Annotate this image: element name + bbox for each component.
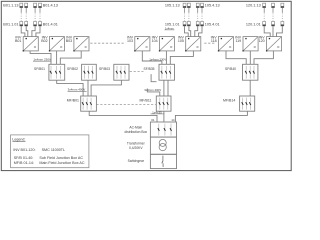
legend line SF/B: [14, 156, 84, 160]
svg-text:105.1.13: 105.1.13: [165, 3, 180, 7]
PV string 105.1 modules: [183, 3, 186, 26]
junction box SF/B40: [243, 64, 258, 80]
svg-text:MF/B01: MF/B01: [67, 99, 79, 103]
wire string B01.1 to inverter: [21, 26, 25, 37]
label MF/B14: [223, 99, 235, 103]
wire SF/B03 to MF/B01: [91, 80, 121, 96]
svg-text:119: 119: [235, 39, 241, 43]
inverter INV B02: [49, 37, 65, 52]
svg-text:Switchgear: Switchgear: [128, 159, 145, 163]
svg-text:1x4mm 230V: 1x4mm 230V: [149, 57, 166, 61]
svg-text:SF/B03: SF/B03: [99, 67, 110, 71]
junction box SF/B35: [159, 64, 175, 80]
label SF/B02: [67, 67, 78, 71]
svg-text:distribution Box: distribution Box: [125, 130, 148, 134]
junction box SF/B02: [82, 64, 97, 80]
svg-text:118: 118: [211, 39, 217, 43]
label MF/B01: [67, 99, 79, 103]
transformer compartment: [150, 137, 176, 154]
wire string 105.3 to inverter: [195, 26, 198, 37]
inverter INV 105: [185, 37, 201, 52]
PV string label 120.1.13: [246, 3, 261, 7]
wire INV 119 to SF/B40: [249, 51, 251, 64]
wire SF/B35 to MF/B11 b: [167, 80, 169, 96]
dashed continuation MF row: [96, 103, 156, 105]
wire string B01.3 to inverter: [32, 26, 35, 37]
wire SF/B01 to MF/B01: [57, 80, 83, 96]
label INV 119: [235, 35, 242, 42]
svg-text:B02: B02: [41, 39, 47, 43]
wire string 105.1 to inverter: [185, 26, 189, 37]
wire INV 105 to SF/B35: [170, 51, 193, 64]
svg-text:0,4/20KV: 0,4/20KV: [129, 146, 143, 150]
PV string 120.2 modules: [272, 3, 275, 26]
legend line MF/B: [14, 161, 85, 165]
cable label 1x4mm DC: [165, 26, 175, 30]
svg-text:105.4.13: 105.4.13: [205, 3, 220, 7]
wire SF/B40 to MF/B14: [249, 80, 251, 96]
svg-text:105: 105: [178, 39, 184, 43]
node label 14: [171, 118, 175, 122]
svg-text:MF/B14: MF/B14: [223, 99, 235, 103]
wire SF/B35 to MF/B11 a: [163, 80, 165, 96]
svg-text:3x4mm 400V: 3x4mm 400V: [68, 87, 86, 91]
label INV B02: [41, 35, 48, 42]
wire INV B03 to SF/B01: [60, 51, 81, 64]
PV string 120.3 modules: [281, 3, 284, 26]
svg-text:120.1.01: 120.1.01: [246, 22, 261, 26]
inverter INV 118: [218, 37, 234, 52]
cable label 3x4mm 400V left: [68, 87, 87, 91]
svg-text:Transformer: Transformer: [127, 141, 146, 145]
wire hidden SF to MF/B11 upper: [151, 74, 156, 82]
svg-text:1x4mm 230V: 1x4mm 230V: [33, 57, 51, 61]
wire INV 118 to SF/B40: [226, 51, 246, 64]
label INV 105: [178, 35, 185, 42]
inverter INV 119: [242, 37, 258, 52]
wire string B01.2 to inverter: [26, 26, 28, 37]
svg-text:SF/B01: SF/B01: [34, 67, 45, 71]
label INV 103: [127, 35, 134, 42]
junction box SF/B01: [49, 64, 65, 80]
junction box MF/B01: [81, 96, 97, 111]
PV string B01.3 modules: [34, 3, 37, 26]
legend line INV: [13, 148, 65, 152]
border frame: [1, 1, 291, 170]
wire hidden SF to MF/B11 lower: [147, 89, 160, 97]
PV string 105.3 modules: [196, 3, 199, 26]
svg-text:SMC 11000TL: SMC 11000TL: [42, 148, 66, 152]
svg-text:120: 120: [259, 39, 265, 43]
junction box SF/B03: [114, 64, 129, 80]
inverter INV B01: [23, 37, 39, 52]
wire MF/B11 to AC box: [163, 111, 165, 122]
wire INV B02 to SF/B01: [56, 51, 58, 64]
transformer T1 symbol: [159, 139, 166, 150]
PV string label B01.1.01: [3, 22, 18, 26]
wire string 105.4 to inverter: [199, 26, 202, 37]
svg-text:INV B01-120:: INV B01-120:: [13, 148, 35, 152]
svg-text:Legend:: Legend:: [12, 138, 25, 142]
label INV 118: [211, 35, 218, 42]
PV string B01.4 modules: [39, 3, 42, 26]
PV string 105.2 modules: [187, 3, 190, 26]
wire MF/B01 to AC box input 01: [89, 111, 157, 122]
PV string label B01.4.13: [43, 3, 58, 7]
inverter INV B03: [73, 37, 89, 52]
label INV 120: [259, 35, 266, 42]
svg-text:B01.1.13: B01.1.13: [3, 3, 18, 7]
label SF/B35: [144, 67, 155, 71]
PV string label 120.1.01: [246, 22, 261, 26]
junction box MF/B14: [240, 96, 255, 111]
svg-text:B01.4.01: B01.4.01: [43, 22, 58, 26]
cable label 1x4mm 230V center: [149, 57, 166, 61]
wire INV B01 to SF/B01: [30, 51, 51, 64]
wire string 120.3 to inverter: [277, 26, 283, 37]
svg-text:SF/B 01-40:: SF/B 01-40:: [14, 156, 34, 160]
svg-text:103: 103: [127, 39, 133, 43]
PV string label 105.4.01: [205, 22, 220, 26]
wire INV 104 to SF/B35: [165, 51, 167, 64]
switchgear compartment: [150, 154, 176, 168]
cable label 1x4x35: [151, 110, 165, 114]
svg-text:Main Field Junction Box AC: Main Field Junction Box AC: [39, 161, 84, 165]
PV string label 105.4.13: [205, 3, 220, 7]
PV string B01.2 modules: [25, 3, 28, 26]
junction box MF/B11: [156, 96, 171, 111]
svg-text:SF/B02: SF/B02: [67, 67, 78, 71]
svg-text:AC-Main: AC-Main: [129, 126, 142, 130]
wire MF/B14 to AC box input 14: [175, 111, 247, 122]
PV string label B01.1.13: [3, 3, 18, 7]
dashed continuation SF row: [130, 71, 144, 73]
label SF/B40: [225, 67, 236, 71]
label AC-Main distribution Box: [125, 126, 148, 135]
label INV B01: [15, 35, 22, 42]
svg-text:SF/B40: SF/B40: [225, 67, 236, 71]
svg-text:B01: B01: [15, 39, 21, 43]
svg-text:MF/B 01-14:: MF/B 01-14:: [14, 161, 34, 165]
inverter INV 120: [266, 37, 282, 52]
PV string label B01.4.01: [43, 22, 58, 26]
legend box: [11, 135, 89, 168]
wire string 105.2 to inverter: [189, 26, 191, 37]
wire string 120.2 to inverter: [272, 26, 274, 37]
cable label 3x4mm 400V center: [144, 88, 161, 92]
svg-text:Sub Field Junction Box AC: Sub Field Junction Box AC: [39, 156, 83, 160]
dashed continuation inverter row right: [204, 42, 216, 44]
wire string 120.1 to inverter: [264, 26, 270, 37]
label SF/B01: [34, 67, 45, 71]
label Transformer 0,4/20KV: [127, 141, 146, 150]
PV string label 105.1.13: [165, 3, 180, 7]
label MF/B11: [140, 99, 152, 103]
label Switchgear: [128, 159, 145, 163]
dashed continuation inverter row left: [90, 42, 125, 44]
label INV B03: [66, 35, 73, 42]
svg-text:B01.4.13: B01.4.13: [43, 3, 58, 7]
PV string B01.1 modules: [20, 3, 23, 26]
node label 01: [151, 118, 155, 122]
wire INV 120 to SF/B40: [254, 51, 273, 64]
svg-text:3x4mm 400V: 3x4mm 400V: [144, 88, 161, 92]
AC-Main distribution box: [150, 122, 176, 137]
inverter INV 103: [134, 37, 150, 52]
cable label 1x4mm 230V left: [33, 57, 51, 61]
wire string B01.4 to inverter: [36, 26, 40, 37]
PV string label 105.1.01: [165, 22, 180, 26]
PV string 105.4 modules: [201, 3, 204, 26]
PV string 120.1 modules: [263, 3, 266, 26]
wire SF/B02 to MF/B01: [87, 80, 89, 96]
svg-text:SF/B35: SF/B35: [144, 67, 155, 71]
label SF/B03: [99, 67, 110, 71]
svg-text:B01.1.01: B01.1.01: [3, 22, 18, 26]
wire INV 103 to SF/B35: [142, 51, 162, 64]
svg-text:120.1.13: 120.1.13: [246, 3, 261, 7]
svg-text:MF/B11: MF/B11: [140, 99, 152, 103]
label INV 104: [152, 35, 159, 42]
svg-text:104: 104: [152, 39, 158, 43]
legend title: [12, 138, 25, 142]
svg-text:105.4.01: 105.4.01: [205, 22, 220, 26]
switchgear switch symbol: [162, 156, 163, 167]
svg-text:B03: B03: [66, 39, 72, 43]
inverter INV 104: [159, 37, 175, 52]
